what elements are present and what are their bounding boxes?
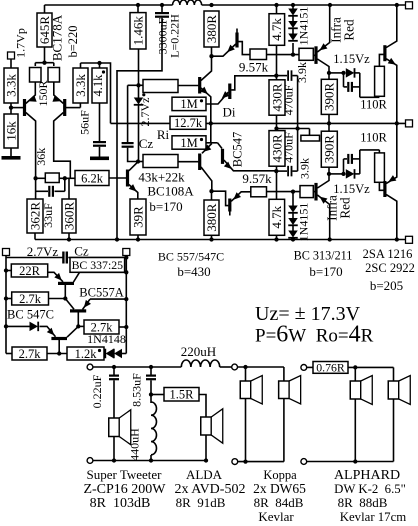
svg-text:Cz: Cz — [74, 244, 89, 259]
svg-text:380R: 380R — [204, 203, 219, 232]
svg-text:1.46k: 1.46k — [130, 16, 145, 46]
svg-text:ALDA: ALDA — [186, 467, 223, 482]
svg-text:470uF: 470uF — [282, 132, 296, 163]
svg-text:39R: 39R — [130, 206, 145, 228]
svg-text:470uF: 470uF — [282, 84, 296, 115]
svg-text:1N4151: 1N4151 — [297, 7, 311, 46]
svg-text:9.57k: 9.57k — [242, 171, 272, 186]
svg-text:150R: 150R — [36, 80, 50, 106]
svg-text:Uz= ± 17.3V: Uz= ± 17.3V — [255, 302, 361, 325]
svg-text:2.7Vz: 2.7Vz — [27, 244, 59, 259]
svg-text:22R: 22R — [19, 264, 41, 278]
svg-text:110R: 110R — [360, 131, 387, 145]
svg-text:4.1k: 4.1k — [91, 74, 105, 97]
svg-text:BC108A: BC108A — [147, 184, 194, 199]
svg-text:390R: 390R — [322, 135, 337, 164]
svg-text:BC 547C: BC 547C — [7, 308, 54, 322]
svg-text:1N4151: 1N4151 — [297, 203, 311, 242]
svg-text:b=205: b=205 — [370, 278, 403, 293]
svg-text:2SC 2922: 2SC 2922 — [365, 261, 415, 275]
svg-text:L=0.22H: L=0.22H — [168, 14, 182, 58]
svg-text:Di: Di — [223, 105, 236, 120]
svg-text:Cz: Cz — [139, 136, 154, 151]
svg-text:56uF: 56uF — [78, 110, 92, 135]
svg-text:Kevlar: Kevlar — [258, 509, 294, 524]
svg-text:4.7k: 4.7k — [269, 205, 284, 228]
svg-text:16k: 16k — [3, 121, 18, 141]
svg-text:b=170: b=170 — [149, 199, 182, 214]
svg-text:360R: 360R — [61, 202, 76, 231]
svg-text:DW K-2 6.5": DW K-2 6.5" — [334, 482, 406, 496]
svg-text:440uH: 440uH — [128, 428, 142, 461]
svg-text:0.76R: 0.76R — [316, 360, 345, 374]
svg-text:362R: 362R — [27, 202, 42, 231]
svg-text:Red: Red — [338, 197, 353, 219]
svg-text:Kevlar 17cm: Kevlar 17cm — [340, 510, 406, 524]
svg-text:BC178A: BC178A — [50, 14, 65, 61]
svg-text:8R 84dB: 8R 84dB — [254, 495, 304, 510]
svg-text:1.7Vp: 1.7Vp — [14, 28, 28, 58]
svg-text:36k: 36k — [34, 148, 48, 166]
svg-text:ALPHARD: ALPHARD — [334, 468, 400, 483]
svg-text:1.2k: 1.2k — [75, 347, 98, 361]
svg-text:3.9k: 3.9k — [298, 158, 312, 179]
svg-text:Super Tweeter: Super Tweeter — [86, 467, 162, 482]
svg-text:2x DW65: 2x DW65 — [253, 481, 306, 496]
svg-text:2.7k: 2.7k — [19, 347, 42, 361]
svg-text:BC557A: BC557A — [79, 286, 123, 300]
svg-text:b=170: b=170 — [309, 264, 342, 279]
svg-text:8R 91dB: 8R 91dB — [176, 495, 226, 510]
svg-text:1.15Vz: 1.15Vz — [333, 182, 370, 196]
svg-text:1.5R: 1.5R — [170, 388, 195, 402]
svg-text:0.22uF: 0.22uF — [90, 374, 104, 408]
svg-text:8R 88dB: 8R 88dB — [338, 495, 388, 510]
svg-text:2.7k: 2.7k — [19, 292, 42, 306]
svg-text:380R: 380R — [204, 15, 219, 44]
svg-text:2.7Vz: 2.7Vz — [138, 98, 152, 127]
svg-text:BC 313/211: BC 313/211 — [294, 249, 353, 263]
svg-text:b=220: b=220 — [66, 25, 80, 57]
svg-text:8.53uF: 8.53uF — [130, 373, 144, 407]
svg-text:110R: 110R — [360, 98, 387, 112]
svg-text:2SA 1216: 2SA 1216 — [363, 247, 413, 261]
svg-text:1.15Vz: 1.15Vz — [333, 52, 370, 66]
svg-text:Koppa: Koppa — [263, 468, 297, 482]
svg-text:1M: 1M — [180, 136, 197, 150]
svg-text:3.3k: 3.3k — [73, 74, 88, 97]
svg-text:BC 337:25: BC 337:25 — [72, 258, 124, 272]
svg-text:BC547: BC547 — [231, 132, 245, 167]
svg-text:8R 103dB: 8R 103dB — [90, 496, 151, 511]
svg-text:Red: Red — [342, 19, 357, 41]
svg-text:220uH: 220uH — [181, 344, 216, 359]
svg-text:1N4148: 1N4148 — [87, 332, 126, 346]
svg-text:b=430: b=430 — [177, 264, 210, 279]
svg-text:6.2k: 6.2k — [81, 171, 104, 185]
svg-text:43k+22k: 43k+22k — [138, 170, 185, 185]
svg-text:9.57k: 9.57k — [239, 60, 269, 75]
svg-text:12.7k: 12.7k — [174, 116, 203, 130]
svg-text:3.3k: 3.3k — [3, 74, 18, 97]
svg-text:390R: 390R — [322, 82, 337, 111]
svg-text:P=6W Ro=4R: P=6W Ro=4R — [255, 322, 374, 348]
svg-text:Z-CP16 200W: Z-CP16 200W — [83, 482, 166, 497]
svg-text:Ri: Ri — [157, 127, 170, 142]
svg-text:1M: 1M — [180, 97, 197, 111]
svg-text:BC 557/547C: BC 557/547C — [158, 250, 224, 264]
svg-text:4.7k: 4.7k — [269, 18, 284, 41]
